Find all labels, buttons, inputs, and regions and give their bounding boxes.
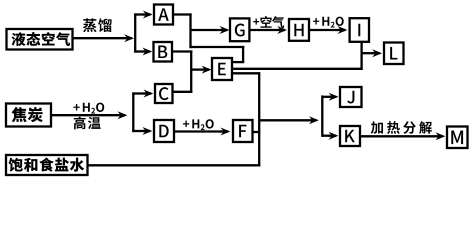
label 蒸馏 (distillation) — [83, 18, 112, 32]
box B — [154, 42, 173, 62]
label 加热分解 (heat decomposition) — [371, 121, 432, 134]
wire E-to-G horizontal at y46 — [189, 46, 244, 48]
wire K to M + arrowhead — [361, 132, 446, 140]
wire brine horizontal — [88, 164, 261, 166]
wire mixing column vertical at x259 — [258, 72, 260, 166]
wire E top-right tap — [232, 61, 244, 63]
wire liquid-air to distillation split + arrowhead — [72, 34, 134, 42]
wire A output horizontal — [173, 13, 192, 15]
wire arrow into G — [190, 26, 230, 34]
label +H2O above coke arrow — [73, 103, 104, 114]
box K — [340, 126, 360, 146]
box F — [233, 120, 253, 142]
box G — [230, 18, 249, 41]
box liquid-air (液态空气) — [7, 29, 73, 50]
wire arrow into B — [134, 48, 152, 56]
wire arrow into C — [132, 90, 153, 98]
wire B output horizontal — [172, 50, 192, 52]
box H — [289, 19, 309, 41]
wire C/D split vertical — [132, 92, 134, 132]
wire arrow into J — [322, 93, 339, 101]
wire D to F + arrowhead — [175, 128, 231, 136]
box M — [447, 127, 468, 149]
label +空气 (+air) — [253, 16, 284, 28]
label +H2O above D-F arrow — [183, 119, 214, 130]
box E — [212, 58, 232, 80]
wire arrow into J/K split — [258, 116, 319, 124]
wire arrow into K — [322, 132, 339, 140]
box A — [154, 5, 173, 25]
wire distillation split vertical — [134, 13, 136, 52]
box I — [350, 18, 369, 42]
wire F output to mixing column — [253, 131, 261, 133]
box D — [154, 120, 174, 142]
label +H2O above H-I arrow — [313, 17, 344, 28]
box L — [384, 43, 404, 65]
wire B/C merge vertical — [190, 50, 192, 93]
label 高温 (high temperature) — [74, 117, 101, 130]
box J — [340, 87, 362, 107]
wire coke output + arrowhead — [51, 111, 127, 119]
wire E-to-G vertical at x243 — [242, 46, 244, 63]
wire C output horizontal — [173, 91, 193, 93]
wire arrow into A — [134, 11, 153, 19]
wire E long output to L junction — [232, 68, 362, 70]
wire J/K split vertical — [321, 95, 323, 136]
box coke (焦炭) — [6, 104, 51, 127]
wire E lower output — [232, 72, 260, 74]
wire arrow into D — [132, 127, 152, 135]
wire H to I + arrowhead — [309, 26, 347, 34]
box saturated-brine (饱和食盐水) — [6, 155, 88, 175]
wire A/E junction vertical — [189, 13, 191, 48]
wire arrow into E — [190, 66, 211, 74]
wire arrow into L — [361, 49, 382, 57]
box C — [155, 84, 173, 103]
wire I output vertical — [360, 42, 362, 70]
wire G to H + arrowhead — [250, 26, 287, 34]
